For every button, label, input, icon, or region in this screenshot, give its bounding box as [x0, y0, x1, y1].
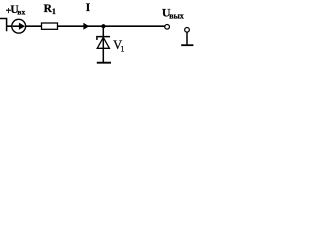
label Uvyx — [162, 5, 184, 20]
svg-text:вх: вх — [17, 8, 25, 17]
ground under zener — [97, 62, 111, 64]
output terminal (open circle) — [165, 24, 170, 29]
label V1 — [113, 38, 124, 53]
wire: lower terminal to ground — [186, 32, 188, 44]
zener diode V1: triangle — [97, 37, 109, 48]
current arrow I — [83, 23, 89, 30]
svg-text:R1: R1 — [44, 3, 56, 16]
svg-text:1: 1 — [120, 45, 124, 54]
wire: top-left input corner — [0, 18, 7, 31]
ground at lower terminal — [181, 44, 193, 46]
svg-text:вых: вых — [169, 12, 184, 21]
resistor R1 (body) — [42, 23, 58, 29]
source symbol (circle) — [12, 19, 26, 33]
source arrow — [13, 25, 20, 27]
zener diode V1: cathode bar with bend — [97, 37, 110, 40]
wire: main horizontal rail — [6, 25, 165, 27]
lower output terminal (open circle) — [185, 27, 190, 32]
svg-text:I: I — [86, 0, 91, 14]
label +Uvx — [6, 4, 26, 17]
junction node dot — [101, 24, 105, 28]
wire: vertical to zener and ground — [102, 26, 104, 62]
